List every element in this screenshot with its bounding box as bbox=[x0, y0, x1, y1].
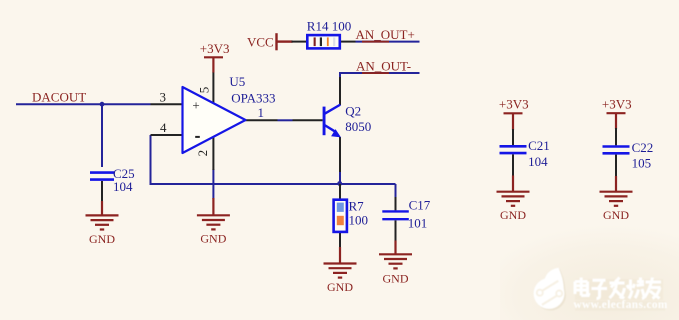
wire emitter to junction bbox=[339, 171, 341, 184]
ground GND under C22 bbox=[600, 176, 633, 222]
ground GND under C21 bbox=[497, 176, 530, 223]
svg-text:+3V3: +3V3 bbox=[602, 96, 632, 111]
watermark brand glyph 4 shao bbox=[627, 278, 644, 299]
svg-text:104: 104 bbox=[113, 179, 133, 194]
op-amp U5 pin 4 line bbox=[151, 134, 183, 136]
resistor R14 right pin bbox=[340, 41, 356, 43]
ground GND under R7 bbox=[324, 247, 357, 294]
op-amp U5 pin 2 line bbox=[212, 137, 214, 170]
op-amp U5 triangle body bbox=[183, 87, 246, 153]
svg-text:Q2: Q2 bbox=[345, 103, 361, 118]
svg-text:AN_OUT-: AN_OUT- bbox=[356, 58, 411, 73]
transistor Q2 collector pin bbox=[339, 77, 341, 105]
svg-text:105: 105 bbox=[632, 155, 652, 170]
svg-text:R14 100: R14 100 bbox=[307, 19, 351, 34]
svg-text:100: 100 bbox=[349, 213, 369, 228]
svg-text:C21: C21 bbox=[528, 138, 550, 153]
capacitor C25 bbox=[90, 173, 114, 202]
ground GND under op-amp pin2 bbox=[197, 198, 230, 246]
svg-text:U5: U5 bbox=[229, 74, 245, 89]
svg-text:C22: C22 bbox=[632, 140, 654, 155]
svg-text:www.elecfans.com: www.elecfans.com bbox=[574, 299, 668, 311]
ground GND under C25 bbox=[86, 201, 119, 246]
svg-text:GND: GND bbox=[603, 208, 629, 222]
power +3V3 at C22 bbox=[607, 113, 626, 129]
transistor Q2 base pin bbox=[293, 119, 323, 121]
svg-text:GND: GND bbox=[383, 272, 409, 286]
svg-text:+: + bbox=[192, 98, 199, 113]
power +3V3 at C21 bbox=[504, 113, 523, 130]
node AN_OUT+ label bbox=[362, 41, 389, 43]
wire feedback horizontal to C17 branch bbox=[150, 183, 396, 185]
capacitor C21 bbox=[500, 129, 527, 177]
svg-text:1: 1 bbox=[258, 105, 265, 120]
op-amp minus input mark bbox=[195, 136, 200, 138]
svg-text:5: 5 bbox=[196, 87, 211, 94]
wire AN OUT- net bbox=[340, 73, 420, 79]
resistor R14 body bbox=[307, 35, 340, 48]
svg-text:OPA333: OPA333 bbox=[231, 90, 275, 105]
svg-text:2: 2 bbox=[195, 150, 210, 157]
svg-text:8050: 8050 bbox=[345, 119, 371, 134]
defs blur filter for watermark bbox=[0, 0, 1, 1]
watermark backdrop tint bbox=[0, 0, 1, 1]
op-amp U5 pin 3 line bbox=[151, 103, 183, 105]
svg-text:3: 3 bbox=[160, 89, 167, 104]
capacitor C17 bbox=[382, 197, 409, 242]
svg-text:104: 104 bbox=[528, 154, 548, 169]
resistor R7 top pin bbox=[339, 184, 341, 200]
transistor Q2 symbol bbox=[323, 105, 341, 138]
watermark brand glyph 5 you bbox=[645, 278, 662, 299]
wire pin2 to GND net bbox=[212, 169, 214, 199]
op-amp U5 pin 1 output line bbox=[246, 119, 278, 121]
svg-text:VCC: VCC bbox=[247, 35, 274, 50]
svg-text:GND: GND bbox=[200, 232, 226, 246]
wire AN OUT+ net bbox=[356, 41, 420, 43]
resistor R7 body bbox=[334, 200, 347, 232]
transistor Q2 emitter pin bbox=[339, 137, 341, 172]
svg-text:R7: R7 bbox=[349, 198, 365, 213]
resistor R7 bottom pin bbox=[339, 232, 341, 249]
ground GND under C17 bbox=[379, 241, 412, 286]
svg-text:+3V3: +3V3 bbox=[499, 97, 529, 112]
wire DACOUT net horizontal bbox=[16, 103, 151, 105]
svg-text:GND: GND bbox=[500, 208, 526, 222]
svg-text:+3V3: +3V3 bbox=[200, 41, 230, 56]
watermark brand glyph 2 zi bbox=[592, 280, 608, 298]
wire feedback vertical from pin4 bbox=[150, 135, 152, 184]
op-amp U5 pin 5 line bbox=[212, 72, 214, 104]
svg-text:AN_OUT+: AN_OUT+ bbox=[356, 27, 415, 42]
watermark brand glyph 3 fa bbox=[610, 278, 625, 299]
power +3V3 at op-amp bbox=[204, 57, 223, 72]
svg-text:101: 101 bbox=[408, 215, 428, 230]
resistor R14 left pin bbox=[292, 41, 308, 43]
node AN_OUT- label bbox=[362, 72, 389, 74]
power VCC bar bbox=[277, 33, 293, 50]
svg-text:GND: GND bbox=[327, 280, 353, 294]
wire branch down to C17 bbox=[395, 184, 397, 198]
watermark logo leaf bbox=[534, 268, 565, 309]
svg-text:4: 4 bbox=[160, 120, 167, 135]
wire op-amp output to Q2 base bbox=[278, 119, 293, 121]
wire junction down to C25 bbox=[101, 104, 103, 167]
node junction emitter/R7/C17 bbox=[337, 181, 342, 186]
watermark shadow layer bbox=[535, 269, 665, 310]
svg-text:GND: GND bbox=[89, 232, 115, 246]
capacitor C22 bbox=[603, 128, 630, 177]
watermark brand glyph 1 dian bbox=[575, 278, 589, 296]
svg-text:C17: C17 bbox=[409, 198, 431, 213]
svg-text:DACOUT: DACOUT bbox=[32, 90, 86, 105]
node junction at DACOUT/C25 bbox=[100, 102, 105, 107]
